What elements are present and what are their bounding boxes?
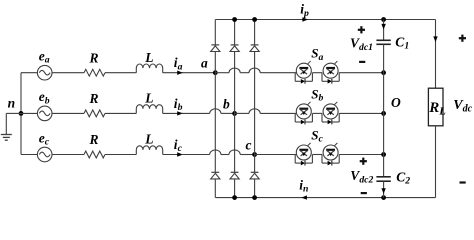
- inductor L phase b: [136, 91, 162, 114]
- diode D2n bottom column 2: [230, 172, 239, 179]
- wire phase c right: [255, 154, 297, 156]
- source e_c: [37, 130, 52, 162]
- wire left bus: [20, 73, 22, 155]
- wire S_a to mid column: [339, 72, 383, 74]
- svg-text:eb: eb: [39, 89, 50, 106]
- capacitor C2: [376, 169, 410, 186]
- svg-text:C2: C2: [396, 169, 410, 186]
- plus C2: [360, 158, 367, 165]
- svg-text:n: n: [8, 96, 16, 111]
- wire + hops phase b: [182, 109, 235, 114]
- wire phase c from bus: [21, 154, 37, 156]
- switch S_c device 2: [323, 143, 338, 160]
- wire e_b to R: [52, 112, 84, 114]
- svg-text:ip: ip: [300, 2, 309, 19]
- capacitor C1: [376, 34, 409, 51]
- wire phase a from bus: [21, 72, 37, 74]
- diode D3p top column 3: [250, 45, 259, 52]
- minus C1: [359, 61, 365, 63]
- diode D3n bottom column 3: [250, 172, 259, 179]
- svg-text:R: R: [89, 91, 99, 106]
- svg-text:O: O: [391, 95, 401, 110]
- wire column 1 lower: [214, 179, 216, 198]
- wire column 2 middle: [234, 52, 236, 173]
- junction mid column row c: [381, 152, 386, 157]
- label V_dc: [453, 98, 472, 115]
- label V_dc1: [350, 36, 373, 54]
- wire phase b from bus: [21, 112, 37, 114]
- wire column 2 lower: [234, 179, 236, 198]
- wire e_a to R: [52, 72, 84, 74]
- resistor R phase b: [84, 91, 105, 117]
- junction bottom mid column: [381, 195, 386, 200]
- switch S_b diode 1: [295, 113, 312, 124]
- label V_dc2: [350, 168, 373, 186]
- node a: [201, 56, 218, 75]
- wire mid column top: [383, 20, 385, 41]
- junction mid column row b: [381, 111, 386, 116]
- plus C1: [358, 26, 365, 33]
- current arrow i_p: [300, 2, 309, 22]
- wire e_c to R: [52, 154, 84, 156]
- wire column 1 middle: [214, 52, 216, 173]
- switch S_c device 1: [296, 143, 311, 160]
- current arrow into C1: [381, 24, 385, 30]
- junction mid column row a: [381, 70, 386, 75]
- svg-text:a: a: [201, 56, 208, 71]
- switch S_a device 2: [323, 61, 338, 78]
- svg-text:Sb: Sb: [311, 86, 323, 103]
- wire column 3 middle: [254, 52, 256, 173]
- wire + hop phase b right: [235, 109, 297, 114]
- resistor R_L: [428, 88, 445, 126]
- current arrow out of C2: [381, 188, 385, 194]
- wire R to L phase a: [105, 72, 136, 74]
- switch S_b device 1: [296, 102, 311, 119]
- source e_a: [37, 49, 52, 80]
- wire R to L phase b: [105, 112, 136, 114]
- minus output: [460, 181, 466, 183]
- wire column 1 upper: [214, 20, 216, 45]
- svg-text:in: in: [299, 178, 308, 195]
- svg-text:Vdc2: Vdc2: [350, 168, 373, 186]
- junction top col2: [232, 17, 237, 22]
- junction bottom col3: [252, 195, 257, 200]
- current arrow load: [433, 36, 437, 42]
- wire column 2 upper: [234, 20, 236, 45]
- svg-text:L: L: [144, 50, 153, 65]
- svg-text:L: L: [144, 132, 153, 147]
- wire column 3 upper: [254, 20, 256, 45]
- switch S_a label: [311, 46, 323, 63]
- current arrow i_b: [163, 96, 183, 116]
- svg-text:ia: ia: [174, 55, 183, 72]
- node c: [246, 138, 258, 157]
- svg-text:Sa: Sa: [311, 46, 323, 63]
- svg-text:R: R: [89, 50, 99, 65]
- wire mid column middle: [383, 44, 385, 177]
- wire S_b to mid column: [339, 112, 383, 114]
- node n: [8, 96, 24, 116]
- junction bottom col2: [232, 195, 237, 200]
- svg-text:ic: ic: [174, 137, 183, 154]
- svg-text:ib: ib: [174, 96, 183, 113]
- switch S_c diode 1: [295, 155, 312, 166]
- wire load branch upper: [435, 20, 437, 89]
- junction top mid column: [381, 17, 386, 22]
- plus output: [459, 35, 466, 42]
- svg-text:Vdc1: Vdc1: [350, 36, 373, 54]
- diode D2p top column 2: [230, 45, 239, 52]
- switch S_b diode 2: [322, 113, 339, 124]
- node b: [223, 96, 237, 115]
- switch S_c label: [311, 127, 323, 144]
- minus C2: [361, 192, 367, 194]
- wire + hops phase c: [182, 150, 255, 155]
- wire S_c to mid column: [339, 154, 383, 156]
- svg-text:Sc: Sc: [311, 127, 323, 144]
- switch S_a diode 2: [322, 73, 339, 84]
- current arrow i_a: [163, 55, 183, 75]
- svg-text:R: R: [89, 132, 99, 147]
- wire bottom rail: [215, 197, 435, 199]
- resistor R phase a: [84, 50, 105, 76]
- switch S_a device 1: [296, 61, 311, 78]
- wire column 3 lower: [254, 179, 256, 198]
- wire load branch lower: [435, 126, 437, 198]
- diode D1p top column 1: [211, 45, 220, 52]
- switch S_c diode 2: [322, 155, 339, 166]
- svg-text:Vdc: Vdc: [453, 98, 472, 115]
- svg-text:ea: ea: [39, 49, 50, 66]
- svg-text:C1: C1: [395, 34, 409, 51]
- switch S_a diode 1: [295, 73, 312, 84]
- wire between S_c devices: [312, 154, 322, 156]
- wire mid column bottom: [383, 181, 385, 197]
- svg-text:L: L: [144, 91, 153, 106]
- node O: [391, 95, 401, 110]
- diode D1n bottom column 1: [211, 172, 220, 179]
- svg-text:c: c: [246, 138, 252, 153]
- current arrow i_n: [299, 178, 308, 200]
- wire top rail: [215, 19, 435, 21]
- svg-text:ec: ec: [39, 130, 50, 147]
- ground: [1, 113, 21, 140]
- wire between S_b devices: [312, 112, 322, 114]
- svg-text:b: b: [223, 96, 230, 111]
- current arrow i_c: [163, 137, 183, 157]
- wire + hops phase a: [215, 68, 296, 73]
- wire between S_a devices: [312, 72, 322, 74]
- switch S_b device 2: [323, 102, 338, 119]
- inductor L phase c: [136, 132, 162, 155]
- switch S_b label: [311, 86, 323, 103]
- source e_b: [37, 89, 52, 121]
- resistor R phase c: [84, 132, 105, 158]
- wire R to L phase c: [105, 154, 136, 156]
- junction top col3: [252, 17, 257, 22]
- inductor L phase a: [136, 50, 162, 73]
- wire phase a to node a: [182, 72, 216, 74]
